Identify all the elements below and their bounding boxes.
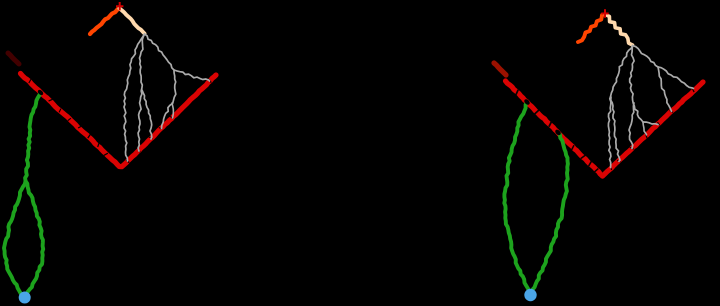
left gluon branch A (leftmost, to vertex): [124, 34, 145, 161]
right gluon branch D2 (J1 to string): [658, 67, 672, 111]
left gluon branch D (to junction): [145, 34, 175, 70]
right junction bead 2 on red string: [554, 129, 562, 137]
left final-state blue dot: [19, 292, 31, 304]
right gluon branch B (to junction J2): [630, 46, 643, 123]
right final-state blue dot: [524, 289, 536, 301]
left gluon branch D1 (to right tip): [174, 70, 210, 81]
right gluon branch D (to junction J1): [633, 46, 659, 68]
left hard parton: orange line: [90, 9, 119, 35]
right gluon branch A (leftmost, to vertex): [608, 46, 632, 168]
right hadron loop: right arc: [532, 132, 568, 291]
left quark string: faint lead-in dash: [8, 53, 19, 64]
left hadron string: green stem from red line to fork: [25, 93, 40, 182]
left hadron loop: left arc: [4, 181, 26, 296]
right red string: dash nicks on left branch: [516, 90, 598, 173]
left gluon branch C (from B): [142, 90, 152, 139]
left diagram: [4, 2, 216, 304]
left hard parton: peach line: [120, 9, 145, 34]
right hadron loop: left arc: [504, 102, 530, 293]
left red string: attachment nicks on right branch: [126, 80, 211, 163]
left apex marker: red plus: [116, 2, 123, 10]
right gluon branch A2 (from A to string): [611, 97, 620, 161]
right hard parton: peach wiggly line: [606, 15, 633, 46]
right red string: attachment nicks on right branch: [610, 88, 694, 170]
left red string: dash nicks on left branch: [29, 79, 108, 155]
right gluon branch D1 (J1 to right tip): [658, 67, 694, 88]
left gluon branch D3: [172, 103, 173, 118]
right quark string: dark red lead-in dash: [494, 63, 506, 75]
left junction bead on red string: [37, 89, 44, 96]
right gluon branch B1 (J2 to string): [643, 122, 658, 125]
left gluon branch D2: [162, 70, 176, 129]
right apex marker: red plus: [601, 9, 608, 17]
right junction bead 1 on red string: [523, 98, 531, 106]
left hadron loop: right arc: [26, 181, 44, 296]
right gluon branch B2 (J2 to string): [643, 122, 647, 135]
right diagram: [494, 9, 703, 301]
left gluon branch B: [138, 34, 144, 151]
left quark string: red V (left branch, vertex, right branch): [21, 74, 217, 167]
right hard parton: orange wiggly line: [578, 15, 605, 43]
right quark string: red V: [506, 81, 704, 176]
right gluon branch Bmid (from B to string): [629, 103, 634, 148]
